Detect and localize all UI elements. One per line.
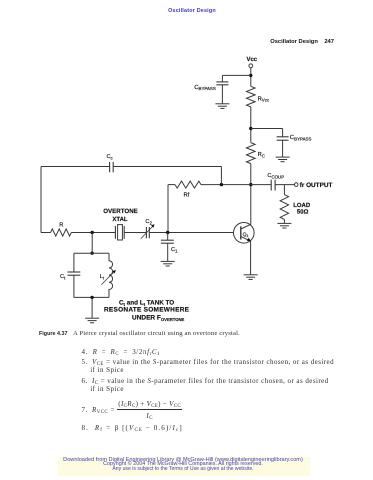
wire LOAD to ground [283, 219, 285, 223]
svg-text:Ct: Ct [60, 274, 66, 280]
transistor Q1 [234, 223, 255, 244]
node tank top [90, 252, 93, 255]
resistor RVcc [247, 86, 270, 107]
capacitor Ct [60, 253, 80, 297]
wire tank riser [91, 233, 93, 254]
wire C2 to base [149, 232, 241, 234]
ground (under tank) [85, 318, 99, 323]
wire feedback riser [220, 167, 222, 185]
bottom notice box [58, 457, 310, 477]
svg-text:R: R [59, 222, 63, 228]
node tank bottom [90, 296, 93, 299]
resistor LOAD 50ohm [280, 195, 311, 220]
node C1 / Rf / base junction [166, 231, 169, 234]
wire load tap [283, 185, 285, 195]
tank annotation [104, 300, 190, 322]
figure caption [39, 330, 240, 337]
wire node to CCOUP [251, 184, 271, 186]
svg-text:CBYPASS: CBYPASS [290, 134, 312, 141]
svg-text:Cc: Cc [107, 154, 114, 160]
wire RVcc to RC [250, 107, 252, 143]
svg-text:RVcc: RVcc [258, 96, 270, 102]
svg-text:CCOUP: CCOUP [267, 173, 284, 179]
resistor Rf [175, 181, 201, 199]
wire CCOUP to output terminal [275, 184, 294, 186]
wire tank bottom [74, 296, 109, 298]
capacitor C1 [161, 233, 178, 262]
svg-text:LOAD: LOAD [293, 202, 311, 209]
page header [0, 39, 334, 45]
terminal Vcc [246, 56, 257, 68]
wire crystal to C2 [124, 232, 146, 234]
wire to resistor R [41, 232, 51, 234]
svg-text:Lt: Lt [100, 274, 105, 280]
wire tank top [74, 252, 109, 254]
wire R to crystal [71, 232, 115, 234]
numbered design equations [82, 348, 161, 356]
svg-text:Rf: Rf [184, 192, 190, 199]
capacitor Cc [107, 154, 114, 172]
crystal OVERTONE XTAL [103, 208, 138, 240]
svg-text:50Ω: 50Ω [297, 209, 309, 216]
svg-text:C2: C2 [145, 219, 152, 225]
ground (under CBYPASS right) [276, 157, 290, 162]
svg-text:Vcc: Vcc [246, 56, 257, 63]
svg-text:OVERTONE: OVERTONE [103, 208, 138, 215]
top blue running head [11, 8, 373, 14]
capacitor CBYPASS (RC) [277, 129, 312, 157]
node Vcc rail / bypass tap [249, 74, 252, 77]
svg-text:RC: RC [258, 152, 265, 158]
item 7 with fraction [82, 400, 183, 420]
node divider tap [249, 127, 252, 130]
wire left feedback drop [40, 167, 42, 233]
terminal fr OUTPUT [294, 182, 332, 189]
svg-text:XTAL: XTAL [112, 216, 128, 223]
wire Rf to base column [168, 184, 175, 186]
svg-text:fr OUTPUT: fr OUTPUT [300, 182, 333, 189]
svg-text:CBYPASS: CBYPASS [194, 84, 216, 91]
node collector / output [249, 183, 252, 186]
svg-text:RESONATE SOMEWHERE: RESONATE SOMEWHERE [104, 307, 190, 314]
wire Vcc node to left bypass capacitor [222, 74, 250, 76]
wire top feedback right segment [113, 166, 221, 168]
capacitor CCOUP [267, 173, 284, 191]
ground (under CBYPASS left) [215, 104, 229, 109]
node Cc / Rf junction [220, 183, 223, 186]
ground (emitter) [244, 275, 258, 280]
capacitor C2 (variable) [141, 219, 155, 239]
wire top feedback left segment [41, 166, 110, 168]
wire emitter to ground [250, 241, 252, 275]
node R / tank junction [91, 231, 94, 234]
resistor RC [247, 143, 265, 164]
inductor Lt (variable) [100, 253, 116, 297]
svg-text:UNDER FOVERTONE: UNDER FOVERTONE [132, 314, 185, 322]
wire Rf down to base line [167, 185, 169, 233]
ground (under C1) [161, 261, 175, 266]
ground (under LOAD) [277, 223, 291, 228]
wire node to right bypass capacitor [251, 128, 283, 130]
svg-text:C1: C1 [171, 247, 178, 253]
wire tank to ground [91, 297, 93, 318]
capacitor CBYPASS (Vcc) [194, 75, 228, 103]
wire collector node to Rf [201, 184, 251, 186]
wire Vcc terminal to RVcc [250, 68, 252, 87]
resistor R [51, 222, 72, 236]
wire RC to collector [250, 164, 252, 225]
